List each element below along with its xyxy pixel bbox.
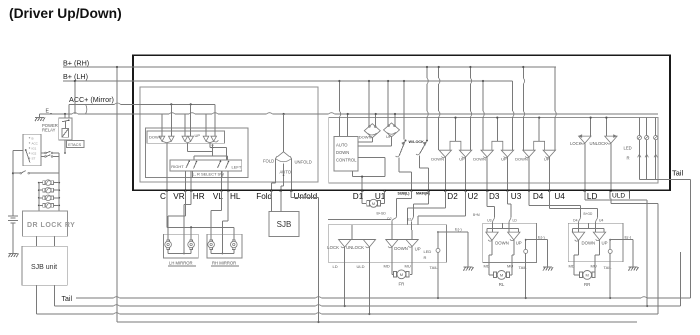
wire tap B+LH to control unit 1 — [338, 80, 349, 137]
wire pair2 output — [188, 143, 213, 152]
contact pair D3/U3 — [473, 117, 514, 162]
wire LH motor bottoms — [168, 249, 191, 253]
svg-text:U4: U4 — [599, 219, 603, 223]
wire RR TAIL to bus — [609, 262, 611, 299]
wire RR MU out — [595, 240, 600, 262]
svg-text:Fold: Fold — [256, 192, 272, 201]
pin labels row — [160, 192, 597, 201]
svg-text:Tail: Tail — [62, 296, 73, 303]
pin junction squares — [166, 189, 613, 191]
wire B+ (LH) rail — [63, 80, 513, 82]
wire wlock out A — [399, 158, 412, 191]
svg-text:SJB: SJB — [277, 220, 292, 229]
label SJB — [277, 220, 292, 229]
bus 2 — [54, 252, 680, 306]
RR block box — [568, 223, 623, 262]
wire tap B+LH down to relay — [74, 80, 76, 114]
fold/unfold rotary switch — [276, 152, 292, 162]
motor RL — [494, 271, 510, 280]
label MD (FR) — [384, 263, 390, 268]
motor RR — [579, 271, 595, 280]
contact pair D2/U2 — [431, 117, 472, 162]
wire D4 drop — [528, 157, 530, 191]
wire D3 drop — [486, 157, 488, 191]
contact DOWN (RR) — [572, 232, 595, 245]
contact UP (FR) — [406, 240, 421, 252]
wire RL TAIL to bus — [525, 262, 527, 299]
wire LD route — [585, 191, 649, 308]
DR LOCK RY box — [22, 211, 67, 236]
wire RL up feed — [508, 223, 510, 233]
wire pin HL staircase — [222, 191, 229, 255]
label LD (FR) — [333, 264, 338, 269]
label LH MIRROR — [168, 260, 196, 266]
label AUTO — [280, 169, 292, 174]
label DOWN(ctrl) — [336, 150, 349, 155]
svg-text:ULD: ULD — [357, 264, 365, 269]
connector U2 chevron — [407, 218, 411, 222]
L/R select switch box — [170, 160, 242, 171]
wire tail drop right — [690, 179, 692, 298]
wire FR MD to motor — [392, 262, 394, 274]
svg-text:LOCK: LOCK — [327, 245, 339, 250]
label B+M (RL) — [473, 213, 480, 217]
label TAIL (RL) — [519, 265, 528, 270]
contact pair 3 — [203, 136, 218, 143]
label E — [46, 109, 53, 115]
RH mirror box — [207, 234, 242, 258]
label E(-) (RL) — [526, 235, 548, 240]
wire RL MD to motor — [489, 262, 494, 275]
svg-text:M: M — [400, 272, 403, 277]
svg-text:DOWN: DOWN — [495, 241, 509, 246]
title — [9, 6, 122, 21]
wire fuse bus right — [58, 153, 60, 211]
svg-text:R: R — [627, 155, 630, 160]
label UNFOLD — [295, 159, 312, 164]
svg-text:U2: U2 — [468, 192, 479, 201]
wire RR up feed — [595, 223, 597, 233]
inner box (switch assembly) — [140, 87, 318, 182]
label Tail (bottom left) — [62, 296, 73, 303]
wire D2 drop — [444, 157, 446, 191]
select contact A — [186, 160, 197, 168]
svg-text:LED: LED — [624, 145, 632, 150]
wire ignition to battery — [12, 151, 23, 216]
svg-text:UNLOCK: UNLOCK — [590, 141, 608, 146]
svg-text:M: M — [500, 273, 503, 278]
wire relay feeds — [65, 104, 69, 118]
wire pin C staircase — [167, 191, 234, 242]
wire FR MD out — [391, 247, 393, 262]
svg-text:AUTO: AUTO — [336, 142, 348, 147]
label LEFT — [232, 164, 242, 169]
wire RL MU to motor — [510, 262, 512, 275]
wire MAIN(R) drop — [411, 191, 428, 222]
wire FR ULD to bus — [368, 262, 370, 315]
label TAIL (RR) — [604, 265, 613, 270]
svg-text:UNFOLD: UNFOLD — [295, 159, 312, 164]
wire E feed — [40, 113, 86, 115]
tail lamp RL — [524, 239, 528, 263]
connector block outline (door mirror switch module) — [133, 55, 670, 190]
RH mirror motor 1 — [208, 240, 215, 250]
tail lamp FR — [436, 231, 440, 262]
svg-text:DOWN: DOWN — [394, 246, 408, 251]
label B+GD (FR) — [377, 212, 387, 216]
wire RR MU to motor — [594, 262, 596, 275]
wire relay out — [64, 140, 66, 154]
wire RH motor bottoms — [211, 249, 234, 253]
wire tap B+LH to DOWN diamond — [368, 80, 377, 127]
ground RR — [629, 240, 639, 271]
wire select staircase — [194, 145, 228, 160]
wire unfold bypass — [291, 191, 318, 198]
label Tail (top right) — [672, 169, 683, 178]
svg-text:ST: ST — [32, 157, 36, 161]
svg-text:RR: RR — [584, 282, 590, 287]
wire RL MU out — [512, 240, 514, 263]
label R (FR) — [424, 255, 427, 260]
contact DOWN (FR) — [386, 240, 408, 251]
svg-text:DOWN: DOWN — [336, 150, 349, 155]
wire sjb down 2 — [53, 285, 55, 306]
label FR — [398, 282, 404, 287]
svg-text:M: M — [372, 202, 375, 206]
wire select out VL — [221, 171, 223, 191]
wire auto-down control to D1 — [353, 171, 386, 191]
label RL — [499, 282, 505, 287]
label TAIL (FR) — [430, 265, 439, 270]
wire select out HR — [190, 171, 192, 191]
wire tap B+LH to UP diamond — [387, 80, 396, 126]
label ULD (FR) — [357, 264, 365, 269]
wire FR ULD out — [368, 247, 370, 262]
fuses — [39, 180, 59, 208]
LED string 2 — [645, 118, 649, 180]
wire tap B+LH to W/LOCK switch — [403, 80, 405, 140]
wire B+LH end drop — [513, 81, 514, 150]
wire FR MU out — [411, 247, 413, 263]
label LED — [624, 145, 632, 150]
svg-text:UP: UP — [516, 241, 522, 246]
w/lock switch — [396, 140, 428, 157]
wire switch feed 1 — [161, 114, 163, 136]
wire U3 link — [508, 191, 512, 218]
wire tap B+RH down 1 — [426, 66, 428, 140]
svg-text:UP: UP — [602, 241, 608, 246]
wire RR bridge — [572, 223, 604, 232]
label CONTROL(ctrl) — [336, 157, 357, 162]
svg-text:M: M — [586, 273, 589, 278]
up/down switch inner box — [147, 131, 225, 143]
wire SUB(L) drop — [392, 191, 412, 222]
svg-text:DR LOCK RY: DR LOCK RY — [27, 222, 75, 229]
wire RR MD out — [574, 240, 579, 261]
wire fused feed — [13, 171, 59, 174]
wire fuse bus left — [38, 182, 40, 211]
svg-text:C: C — [160, 192, 166, 201]
wire lower feed rail — [86, 104, 659, 115]
ground E — [35, 114, 45, 121]
svg-text:B+GD: B+GD — [377, 212, 387, 216]
relay coil — [62, 129, 69, 138]
svg-text:MAIN(R): MAIN(R) — [416, 192, 430, 196]
svg-text:RL: RL — [499, 282, 505, 287]
connector D4 chevron — [573, 217, 580, 223]
node ACC+ (Mirror) label — [69, 95, 114, 104]
svg-text:W/LOCK: W/LOCK — [409, 140, 425, 144]
wire auto pin — [281, 164, 284, 191]
label DOWN (switch) — [149, 135, 162, 140]
wire pin VL staircase — [211, 191, 221, 242]
wire B+RH end drop — [555, 67, 556, 150]
LED string 3 — [654, 118, 658, 180]
wire U2 drop — [465, 157, 467, 191]
wire LD drop — [584, 143, 586, 190]
svg-text:D4: D4 — [573, 219, 577, 223]
label RH MIRROR — [211, 260, 239, 266]
wire FR MU to motor — [410, 262, 412, 274]
wire drlock to sjb 1 — [35, 236, 37, 246]
wire ULD route — [611, 199, 658, 314]
label L R SELECT SW — [192, 171, 224, 178]
svg-text:B+ (LH): B+ (LH) — [63, 72, 88, 81]
svg-text:UP: UP — [501, 157, 507, 162]
svg-text:HR: HR — [193, 192, 205, 201]
contact UP (RR) — [593, 232, 607, 245]
svg-text:HL: HL — [230, 192, 241, 201]
connector U4 chevron — [596, 217, 604, 223]
LH mirror box — [163, 234, 198, 258]
wire FR TAIL to bus — [437, 262, 439, 299]
svg-text:UP: UP — [195, 133, 201, 138]
label LED (FR) — [424, 249, 432, 254]
wire U4 drop — [548, 157, 550, 191]
svg-text:DOWN: DOWN — [515, 157, 528, 162]
svg-text:ACC: ACC — [32, 141, 39, 145]
ignition contact row 1 — [41, 151, 59, 154]
svg-text:RH MIRROR: RH MIRROR — [212, 260, 236, 265]
label AUTO(ctrl) — [336, 142, 348, 147]
contact LOCK — [570, 117, 592, 146]
power relay box — [59, 118, 72, 140]
svg-text:DOWN: DOWN — [431, 157, 444, 162]
ignition switch box — [23, 134, 41, 165]
wire B+ (RH) rail — [63, 66, 556, 68]
svg-text:MU: MU — [405, 263, 411, 268]
wire FR up feed — [410, 222, 413, 240]
wire U4 link — [549, 191, 597, 218]
node B+ (LH) label — [63, 72, 88, 81]
svg-text:MD: MD — [384, 263, 390, 268]
svg-text:(Driver Up/Down): (Driver Up/Down) — [9, 6, 122, 21]
svg-text:LD: LD — [513, 219, 518, 223]
svg-text:IG1: IG1 — [32, 147, 37, 151]
svg-text:FOLD: FOLD — [263, 158, 274, 163]
bus Tail — [76, 297, 691, 298]
node B+ (RH) label — [63, 59, 89, 68]
wire switch feed 4 — [190, 104, 192, 136]
bus 4 — [117, 321, 637, 323]
svg-text:SJB unit: SJB unit — [31, 264, 57, 271]
pin ULD boxed label — [610, 191, 630, 200]
wire RR MD to motor — [574, 262, 580, 275]
svg-text:UP: UP — [459, 157, 465, 162]
ignition switch internals — [25, 136, 39, 162]
svg-text:B+M: B+M — [473, 213, 480, 217]
label E(-) (FR) — [438, 226, 468, 232]
label RIGHT — [171, 164, 184, 169]
wire select out VR — [184, 171, 186, 191]
wire pair1 output to pin C — [166, 143, 168, 191]
RL block box — [483, 223, 537, 262]
wire RL bridge — [487, 223, 519, 232]
wire D1 drop — [362, 191, 366, 204]
wire U1 drop — [381, 191, 385, 204]
svg-text:RELAY: RELAY — [42, 128, 56, 133]
ground battery — [9, 254, 19, 258]
svg-text:R: R — [424, 255, 427, 260]
diamond switch UP — [384, 123, 400, 139]
wire diamond DOWN out — [358, 138, 373, 142]
wire RL down feed — [492, 223, 494, 233]
wire fold into SJB — [270, 191, 272, 212]
wire tap B+LH down 4 — [482, 80, 484, 150]
svg-text:ACC+ (Mirror): ACC+ (Mirror) — [69, 95, 114, 104]
svg-text:DOWN: DOWN — [582, 241, 596, 246]
svg-text:LOCK: LOCK — [570, 141, 582, 146]
svg-text:B: B — [32, 136, 34, 140]
auto down control box — [334, 137, 358, 171]
label MU (RR) — [591, 263, 597, 268]
wire diamond UP out — [358, 137, 392, 146]
motor FR — [394, 270, 410, 279]
wire RL MD out — [489, 240, 492, 262]
contact UNLOCK — [590, 117, 618, 146]
wire switch feed 6 — [214, 104, 216, 136]
svg-text:D2: D2 — [387, 217, 391, 221]
svg-text:UP: UP — [415, 246, 421, 251]
contact UP (RL) — [508, 232, 522, 245]
svg-text:IG2: IG2 — [32, 152, 37, 156]
svg-text:Tail: Tail — [672, 169, 683, 178]
FR block box — [328, 225, 446, 262]
label RR — [584, 282, 590, 287]
wire tail collector — [639, 178, 690, 180]
wire FR LD out — [344, 247, 346, 262]
wire pin HR staircase — [183, 191, 191, 255]
svg-text:LH MIRROR: LH MIRROR — [169, 260, 193, 265]
svg-text:RIGHT: RIGHT — [171, 164, 184, 169]
svg-text:TAIL: TAIL — [430, 265, 439, 270]
svg-text:U2: U2 — [407, 218, 411, 222]
svg-text:U4: U4 — [554, 192, 565, 201]
svg-text:L, R SELECT SW: L, R SELECT SW — [193, 172, 225, 177]
wire tap B+RH down 5 — [522, 66, 524, 150]
fold motor D1/U1 — [367, 199, 381, 207]
bus 3 — [36, 313, 658, 314]
label FOLD — [263, 158, 274, 163]
svg-text:LD: LD — [333, 264, 338, 269]
wire rail to FR — [328, 219, 390, 221]
svg-text:U3: U3 — [511, 192, 522, 201]
diamond switch DOWN — [359, 124, 381, 140]
wire FR LD to bus — [344, 262, 346, 307]
wire fold switch feed — [283, 114, 285, 152]
LED string 1 — [637, 118, 641, 180]
wire ULD drop — [610, 143, 612, 190]
svg-text:ULD: ULD — [612, 192, 625, 199]
wire fold pin — [271, 159, 275, 191]
SJB box — [269, 212, 299, 237]
svg-text:Unfold: Unfold — [294, 192, 318, 201]
connector D2 chevron — [387, 217, 391, 221]
connector D3 chevron — [487, 217, 494, 223]
wire sjb down 1 — [35, 285, 37, 314]
wire tap B+RH to bus4 (left) — [116, 66, 118, 322]
wire FR lock feed — [339, 225, 376, 240]
wire U2 link — [418, 191, 466, 225]
mirror control unit box — [329, 118, 658, 183]
label MD (RR) — [569, 263, 575, 268]
svg-text:B+ (RH): B+ (RH) — [63, 59, 89, 68]
wire control to wlock — [358, 157, 386, 176]
svg-text:SUB(L): SUB(L) — [398, 192, 410, 196]
label B+GD (RR) — [584, 212, 593, 216]
label POWER RELAY — [42, 123, 58, 133]
svg-text:VR: VR — [173, 192, 184, 201]
wire drlock to sjb 2 — [53, 236, 55, 246]
wire D3 link — [487, 191, 494, 218]
svg-text:D2: D2 — [447, 192, 458, 201]
wire switch feed 3 — [184, 114, 186, 136]
wire FR down feed — [391, 222, 393, 240]
label R — [627, 155, 630, 160]
contact LOCK (FR) — [327, 240, 351, 250]
svg-text:B+GD: B+GD — [584, 212, 593, 216]
svg-text:D3: D3 — [489, 192, 500, 201]
select contact B — [218, 160, 230, 168]
svg-text:E(-): E(-) — [538, 235, 545, 240]
label MAIN(R) — [416, 192, 430, 196]
wire select out HL — [227, 171, 229, 191]
svg-text:ETACS: ETACS — [68, 142, 81, 147]
wire U3 drop — [507, 157, 509, 191]
svg-text:FR: FR — [398, 282, 404, 287]
label DR LOCK RY — [27, 222, 75, 229]
LH mirror motor 1 — [165, 240, 172, 250]
svg-text:MU: MU — [591, 263, 597, 268]
ground RL — [543, 240, 553, 271]
wire auto into SJB — [280, 191, 282, 212]
label SUB(L) — [398, 192, 410, 196]
contact DOWN (RL) — [486, 232, 509, 245]
ETACS box — [67, 141, 85, 148]
wire pin VR staircase — [168, 191, 185, 242]
tail lamp RR — [608, 239, 612, 262]
wire FR bridge — [386, 239, 419, 241]
wire D4 link — [529, 191, 581, 218]
label MU (FR) — [405, 263, 411, 268]
wire unfold pin — [291, 159, 293, 191]
svg-text:E(-): E(-) — [455, 226, 462, 231]
svg-text:U3: U3 — [487, 219, 491, 223]
wire wlock out B — [420, 156, 429, 191]
label MD (RL) — [484, 263, 490, 268]
ignition contact row 2 — [41, 155, 59, 158]
contact UNLOCK (FR) — [346, 240, 376, 250]
